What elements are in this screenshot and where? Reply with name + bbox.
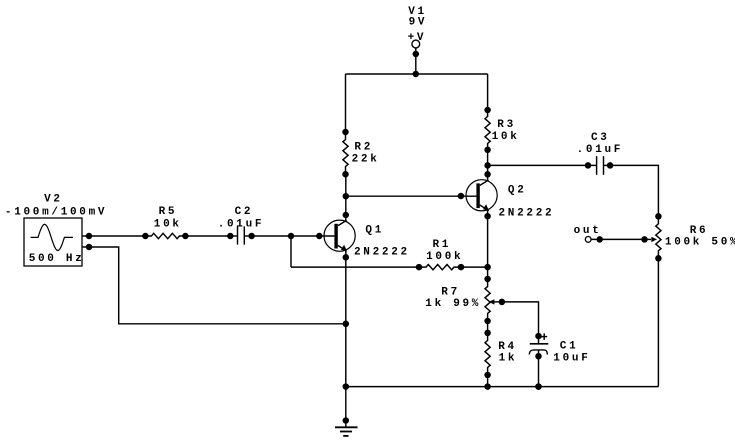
power +V terminal V1: [412, 40, 420, 77]
wire Q2 emitter down: [487, 211, 489, 280]
resistor R3: [484, 107, 491, 153]
wire to R1: [291, 266, 419, 268]
V2 plus terminal: [82, 235, 91, 237]
svg-text:+V: +V: [408, 32, 427, 44]
wire feedback down: [290, 236, 292, 267]
resistor R5: [142, 233, 189, 240]
R6 wiper arrow: [641, 236, 657, 243]
wire bottom rail: [346, 386, 659, 388]
svg-text:100k 50%: 100k 50%: [665, 237, 735, 249]
wire V2 to R5: [89, 235, 145, 237]
wire R6 to rail: [657, 258, 659, 386]
capacitor C3: [585, 156, 614, 175]
sine wave symbol: [31, 224, 73, 250]
transistor Q2: [466, 171, 497, 219]
wire out to R6 wiper: [591, 238, 644, 240]
svg-text:22k: 22k: [352, 154, 380, 166]
out terminal: [585, 237, 591, 243]
wire R5 to C2: [185, 235, 230, 237]
resistor R1: [416, 264, 465, 271]
capacitor C1: [529, 333, 548, 390]
transistor Q1: [316, 212, 355, 261]
capacitor C2: [227, 226, 255, 244]
svg-text:500 Hz: 500 Hz: [29, 253, 85, 265]
svg-text:R5: R5: [159, 206, 178, 218]
ground: [335, 387, 358, 436]
wire rail to R3: [487, 74, 489, 110]
potentiometer R7: [484, 276, 491, 325]
wire R1 to Q2 emitter line: [461, 266, 488, 268]
svg-text:R1: R1: [433, 239, 452, 251]
V2 minus terminal: [82, 246, 91, 248]
wire Q1 emitter down: [345, 251, 347, 387]
wire C2 to Q1 base: [252, 235, 335, 237]
svg-text:R4: R4: [498, 341, 517, 353]
svg-text:-100m/100mV: -100m/100mV: [5, 207, 107, 219]
svg-text:.01uF: .01uF: [577, 144, 624, 156]
node C3 tap: [484, 162, 491, 169]
svg-text:C2: C2: [235, 206, 254, 218]
svg-text:R2: R2: [354, 142, 373, 154]
svg-text:10k: 10k: [154, 219, 182, 231]
potentiometer R6: [655, 213, 662, 261]
svg-text:V2: V2: [44, 193, 63, 205]
wire V2 return: [89, 247, 346, 324]
R7 wiper arrow: [489, 299, 505, 306]
wire C3 to R6: [603, 165, 658, 216]
svg-text:R7: R7: [441, 286, 460, 298]
svg-text:100k: 100k: [426, 251, 463, 263]
svg-text:10uF: 10uF: [553, 352, 590, 364]
svg-text:R6: R6: [690, 225, 709, 237]
svg-text:1k 99%: 1k 99%: [425, 298, 481, 310]
wire rail to R2: [345, 74, 347, 132]
wire R7 wiper to C1: [502, 302, 539, 344]
svg-text:Q2: Q2: [508, 185, 527, 197]
voltage source V2 box: [24, 218, 82, 266]
resistor R2: [342, 129, 349, 178]
svg-text:10k: 10k: [492, 131, 520, 143]
resistor R4: [484, 330, 491, 379]
svg-text:1k: 1k: [499, 352, 518, 364]
svg-text:.01uF: .01uF: [218, 219, 265, 231]
node base of Q2 branch: [343, 193, 350, 200]
svg-text:C1: C1: [560, 341, 579, 353]
wire top supply rail: [346, 73, 488, 75]
wire collector node to C3: [488, 164, 597, 166]
svg-text:2N2222: 2N2222: [354, 247, 410, 259]
wire R3 to Q2 collector: [487, 150, 489, 181]
svg-text:C3: C3: [591, 132, 610, 144]
node feedback tap: [288, 233, 295, 240]
svg-text:Q1: Q1: [365, 225, 384, 237]
svg-text:out: out: [574, 225, 602, 237]
svg-text:9V: 9V: [409, 16, 428, 28]
wire R2 to Q1 collector: [345, 174, 347, 221]
wire R7 to R4: [487, 321, 489, 333]
wire to Q2 base: [346, 195, 477, 197]
svg-text:2N2222: 2N2222: [499, 207, 555, 219]
wire R4 to rail: [487, 375, 489, 387]
svg-text:R3: R3: [497, 119, 516, 131]
